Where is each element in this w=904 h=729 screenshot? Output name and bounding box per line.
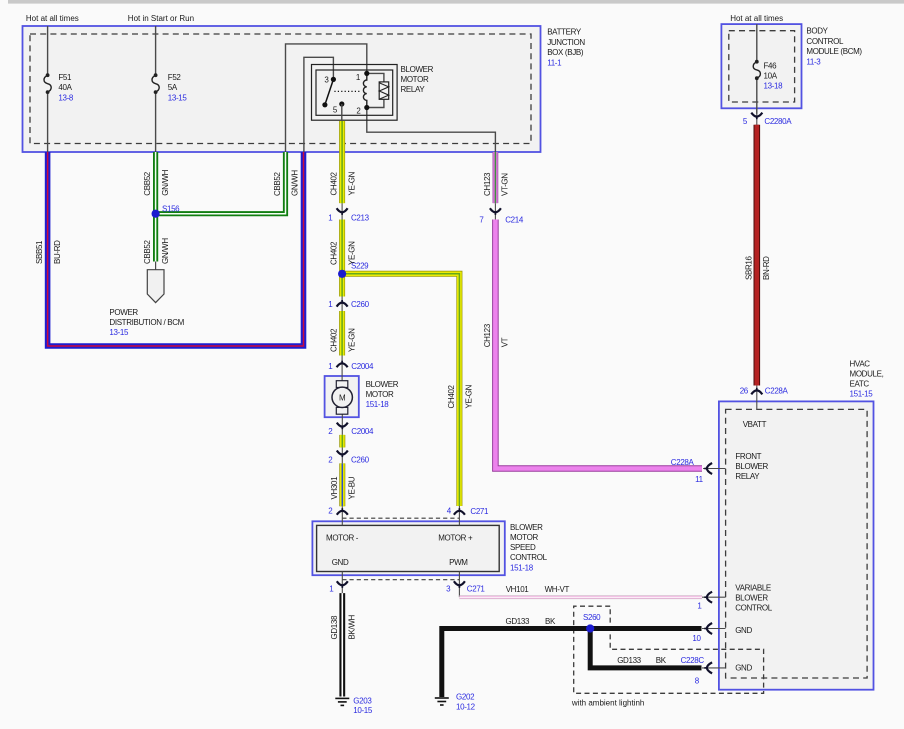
svg-text:CBB52: CBB52 bbox=[143, 171, 152, 195]
svg-text:GND: GND bbox=[332, 558, 349, 567]
svg-text:C271: C271 bbox=[470, 507, 489, 516]
svg-text:BU-RD: BU-RD bbox=[53, 240, 62, 264]
svg-text:C214: C214 bbox=[505, 216, 524, 225]
svg-text:CH402: CH402 bbox=[447, 384, 456, 408]
svg-text:BN-RD: BN-RD bbox=[762, 256, 771, 280]
svg-text:RELAY: RELAY bbox=[735, 472, 760, 481]
svg-text:GD138: GD138 bbox=[330, 615, 339, 639]
svg-text:BK: BK bbox=[545, 617, 556, 626]
svg-text:5A: 5A bbox=[168, 83, 178, 92]
svg-text:WH-VT: WH-VT bbox=[545, 585, 570, 594]
svg-text:CH402: CH402 bbox=[330, 328, 339, 352]
svg-text:VT: VT bbox=[501, 337, 510, 347]
svg-text:DISTRIBUTION / BCM: DISTRIBUTION / BCM bbox=[109, 318, 184, 327]
svg-text:C271: C271 bbox=[467, 584, 486, 593]
svg-text:CONTROL: CONTROL bbox=[510, 553, 548, 562]
svg-text:MOTOR: MOTOR bbox=[510, 533, 538, 542]
svg-text:C2004: C2004 bbox=[351, 362, 374, 371]
svg-text:POWER: POWER bbox=[109, 308, 138, 317]
svg-text:Hot in Start or Run: Hot in Start or Run bbox=[128, 14, 194, 23]
svg-text:HVAC: HVAC bbox=[850, 359, 871, 368]
svg-text:CH123: CH123 bbox=[483, 172, 492, 196]
svg-text:13-15: 13-15 bbox=[168, 94, 188, 103]
svg-text:GN/WH: GN/WH bbox=[291, 170, 300, 196]
svg-text:Hot at all times: Hot at all times bbox=[26, 14, 79, 23]
svg-text:GND: GND bbox=[735, 664, 752, 673]
svg-text:151-15: 151-15 bbox=[850, 390, 874, 399]
svg-text:FRONT: FRONT bbox=[735, 452, 761, 461]
svg-text:13-15: 13-15 bbox=[109, 328, 129, 337]
svg-text:MOTOR +: MOTOR + bbox=[438, 534, 473, 543]
svg-text:Hot at all times: Hot at all times bbox=[730, 14, 783, 23]
svg-text:C260: C260 bbox=[351, 456, 370, 465]
svg-text:EATC: EATC bbox=[850, 379, 870, 388]
svg-text:C228A: C228A bbox=[671, 458, 695, 467]
svg-text:VARIABLE: VARIABLE bbox=[735, 584, 771, 593]
svg-text:BOX (BJB): BOX (BJB) bbox=[547, 48, 584, 57]
svg-text:11-3: 11-3 bbox=[806, 57, 821, 66]
svg-text:C228C: C228C bbox=[681, 656, 705, 665]
svg-text:11-1: 11-1 bbox=[547, 59, 562, 68]
svg-text:CH402: CH402 bbox=[330, 241, 339, 265]
svg-text:C228A: C228A bbox=[765, 387, 789, 396]
svg-text:G203: G203 bbox=[353, 697, 372, 706]
svg-text:13-18: 13-18 bbox=[764, 82, 784, 91]
svg-text:RELAY: RELAY bbox=[401, 85, 426, 94]
svg-text:BLOWER: BLOWER bbox=[401, 65, 434, 74]
svg-text:SBB51: SBB51 bbox=[35, 240, 44, 264]
svg-text:CH402: CH402 bbox=[330, 171, 339, 195]
svg-text:GND: GND bbox=[735, 626, 752, 635]
svg-text:S260: S260 bbox=[583, 613, 601, 622]
svg-text:YE-GN: YE-GN bbox=[347, 241, 356, 265]
svg-text:151-18: 151-18 bbox=[510, 563, 534, 572]
svg-text:BLOWER: BLOWER bbox=[510, 523, 543, 532]
svg-text:10: 10 bbox=[692, 634, 701, 643]
svg-text:CBB52: CBB52 bbox=[273, 172, 282, 196]
svg-text:VH301: VH301 bbox=[330, 476, 339, 500]
svg-text:BODY: BODY bbox=[806, 26, 828, 35]
svg-text:VH101: VH101 bbox=[506, 585, 530, 594]
svg-text:YE-GN: YE-GN bbox=[347, 328, 356, 352]
svg-text:26: 26 bbox=[740, 387, 749, 396]
svg-text:BK/WH: BK/WH bbox=[348, 614, 357, 639]
svg-text:CONTROL: CONTROL bbox=[735, 604, 773, 613]
svg-text:MOTOR: MOTOR bbox=[366, 390, 394, 399]
svg-text:YE-GN: YE-GN bbox=[347, 171, 356, 195]
svg-text:CBB52: CBB52 bbox=[143, 240, 152, 264]
svg-text:S156: S156 bbox=[162, 204, 180, 213]
svg-text:F46: F46 bbox=[764, 62, 778, 71]
svg-text:10A: 10A bbox=[764, 72, 778, 81]
svg-text:GN/WH: GN/WH bbox=[161, 238, 170, 264]
svg-text:11: 11 bbox=[695, 475, 704, 484]
svg-text:BLOWER: BLOWER bbox=[735, 594, 768, 603]
svg-text:10-12: 10-12 bbox=[456, 703, 476, 712]
svg-text:VBATT: VBATT bbox=[743, 420, 767, 429]
svg-text:GD133: GD133 bbox=[617, 656, 641, 665]
svg-text:MOTOR: MOTOR bbox=[401, 75, 429, 84]
svg-text:MODULE (BCM): MODULE (BCM) bbox=[806, 47, 862, 56]
svg-text:151-18: 151-18 bbox=[366, 400, 390, 409]
svg-text:C260: C260 bbox=[351, 300, 370, 309]
svg-text:YE-GN: YE-GN bbox=[465, 384, 474, 408]
svg-text:BK: BK bbox=[656, 656, 667, 665]
svg-text:G202: G202 bbox=[456, 693, 475, 702]
svg-text:CH123: CH123 bbox=[483, 323, 492, 347]
svg-text:BATTERY: BATTERY bbox=[547, 27, 582, 36]
svg-text:BLOWER: BLOWER bbox=[735, 462, 768, 471]
svg-text:13-8: 13-8 bbox=[58, 94, 74, 103]
svg-text:MODULE,: MODULE, bbox=[850, 369, 884, 378]
svg-text:BLOWER: BLOWER bbox=[366, 380, 399, 389]
svg-text:10-15: 10-15 bbox=[353, 706, 373, 715]
svg-text:F52: F52 bbox=[168, 73, 182, 82]
svg-text:SBR16: SBR16 bbox=[744, 256, 753, 280]
svg-text:C2004: C2004 bbox=[351, 427, 374, 436]
svg-text:CONTROL: CONTROL bbox=[806, 37, 844, 46]
svg-text:F51: F51 bbox=[58, 73, 72, 82]
svg-text:JUNCTION: JUNCTION bbox=[547, 38, 585, 47]
svg-text:GD133: GD133 bbox=[506, 617, 530, 626]
svg-text:M: M bbox=[339, 393, 346, 402]
svg-text:PWM: PWM bbox=[449, 558, 468, 567]
svg-text:MOTOR -: MOTOR - bbox=[326, 534, 359, 543]
svg-text:YE-BU: YE-BU bbox=[348, 476, 357, 499]
svg-text:40A: 40A bbox=[58, 83, 72, 92]
svg-text:VT-GN: VT-GN bbox=[501, 173, 510, 196]
svg-text:C2280A: C2280A bbox=[764, 117, 792, 126]
svg-text:GN/WH: GN/WH bbox=[161, 169, 170, 195]
svg-text:SPEED: SPEED bbox=[510, 543, 536, 552]
svg-text:C213: C213 bbox=[351, 214, 370, 223]
svg-text:with ambient lightinh: with ambient lightinh bbox=[571, 699, 644, 708]
